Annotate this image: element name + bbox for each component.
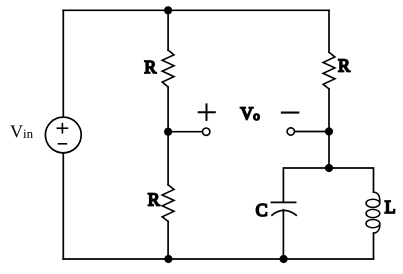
wire right rail lower (328, 89, 330, 168)
wire Vo minus lead (295, 131, 329, 133)
resistor R1 (162, 50, 174, 87)
node tank top junction (325, 164, 333, 172)
wire bottom rail (63, 258, 374, 260)
wire inductor bottom lead (373, 233, 375, 259)
capacitor C (272, 202, 297, 215)
node top junction (164, 6, 172, 14)
svg-text:R: R (338, 55, 350, 75)
terminal Vo minus (287, 128, 294, 135)
terminal Vo plus (203, 128, 210, 135)
wire tank top rail (283, 168, 373, 202)
node A Vo plus node (164, 128, 172, 136)
wire middle branch middle (167, 87, 169, 185)
plus sign inside source (57, 124, 67, 133)
wire middle branch upper (167, 10, 169, 50)
svg-text:L: L (385, 197, 396, 217)
wire left rail upper (62, 10, 64, 117)
wire top rail (63, 9, 329, 11)
node capacitor bottom junction (280, 255, 288, 263)
minus sign inside source (58, 143, 66, 145)
resistor R2 (323, 52, 335, 89)
wire left rail lower (62, 153, 64, 259)
inductor L (366, 192, 380, 233)
svg-text:R: R (148, 189, 160, 209)
wire capacitor bottom lead (282, 210, 284, 259)
wire right rail upper (328, 10, 330, 52)
minus sign Vo (282, 112, 298, 114)
plus sign Vo (199, 104, 215, 120)
wire Vo plus lead (168, 131, 202, 133)
node B Vo minus node (325, 127, 333, 135)
wire middle branch lower (167, 221, 169, 259)
voltage source Vin (45, 117, 81, 153)
node bottom junction (164, 255, 172, 263)
svg-text:R: R (144, 57, 156, 77)
resistor R3 (162, 185, 174, 222)
svg-text:C: C (256, 200, 268, 220)
